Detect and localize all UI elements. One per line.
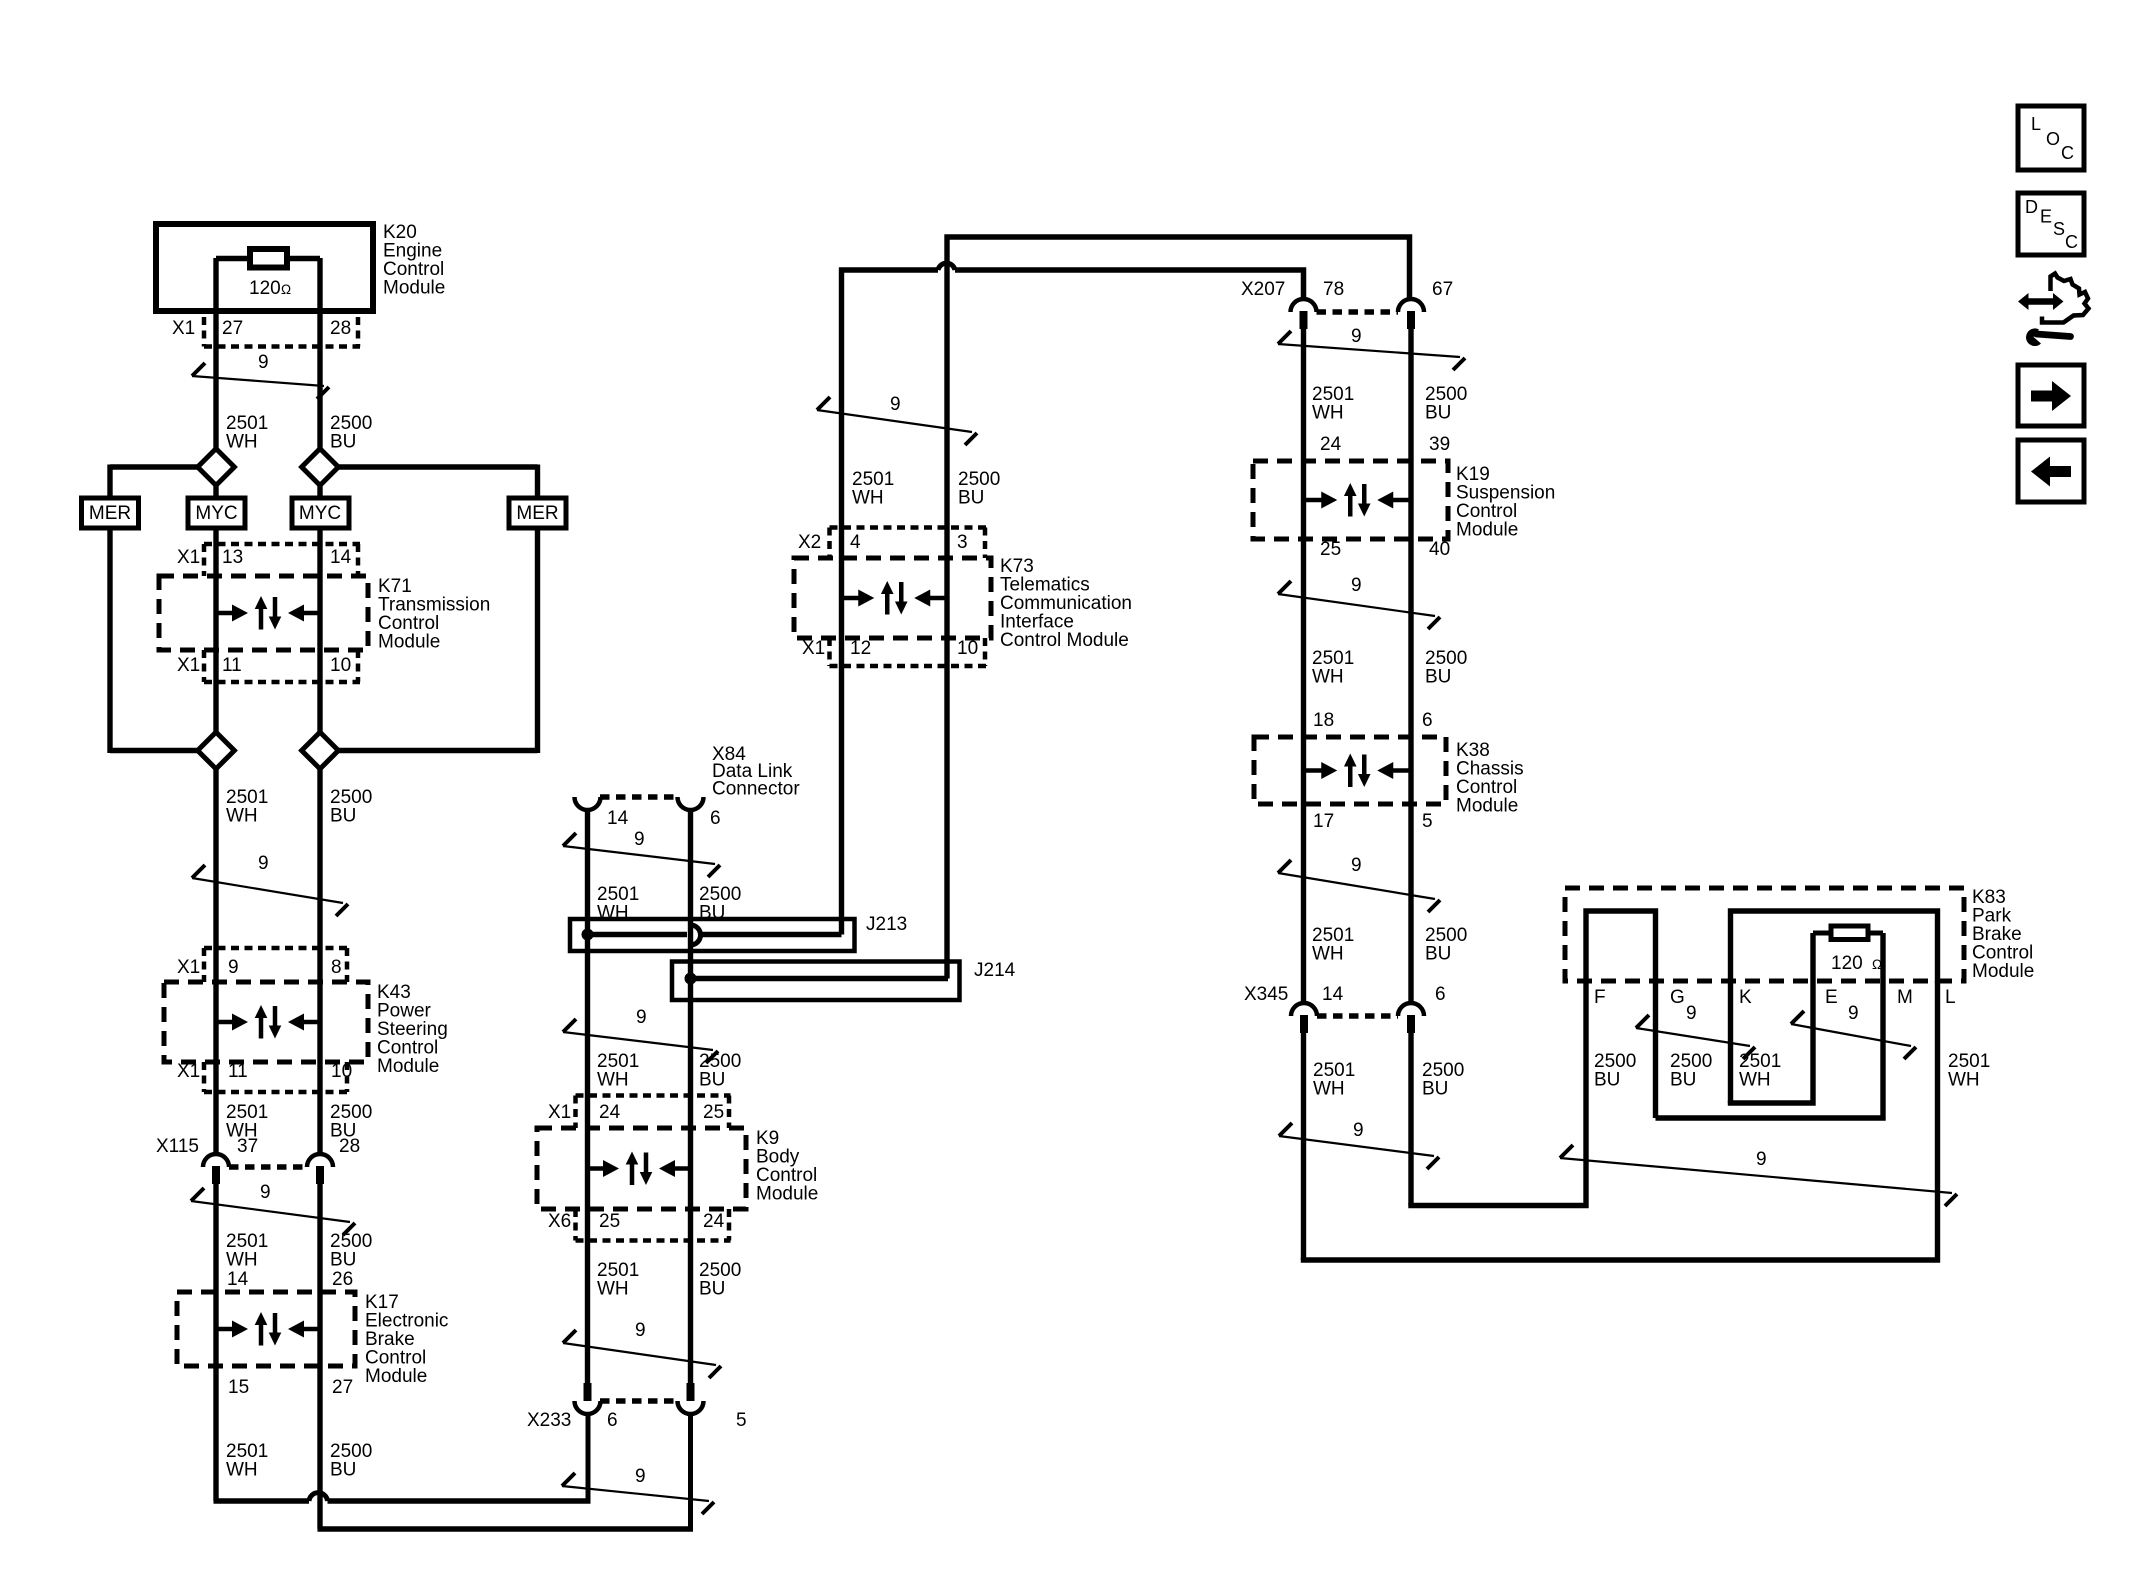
connector X1 of K20 - pins 27 28 — [172, 317, 360, 347]
svg-text:Control Module: Control Module — [1000, 630, 1129, 651]
svg-text:9: 9 — [634, 829, 645, 850]
svg-text:9: 9 — [1353, 1120, 1364, 1141]
wire - twisted pair mark 9 — [563, 1320, 721, 1378]
connector X1 top of K9 - pins 24 25 — [548, 1096, 731, 1129]
svg-text:Module: Module — [365, 1366, 427, 1387]
svg-text:MER: MER — [89, 503, 131, 524]
pin labels 15 27 below K17 — [228, 1377, 353, 1398]
svg-text:9: 9 — [1756, 1149, 1767, 1170]
module K83 Park Brake Control Module box — [1565, 888, 1964, 981]
pin labels 18 6 above K38 — [1313, 710, 1433, 731]
svg-text:9: 9 — [635, 1466, 646, 1487]
svg-text:BU: BU — [1594, 1069, 1620, 1090]
svg-text:WH: WH — [226, 1459, 258, 1480]
svg-text:9: 9 — [1686, 1003, 1697, 1024]
wire - twisted pair mark 9 — [1560, 1145, 1957, 1206]
svg-text:120: 120 — [1831, 953, 1863, 974]
terminal MYC right — [292, 498, 349, 528]
wire - twisted pair mark 9 — [1278, 326, 1465, 370]
svg-text:WH: WH — [1739, 1069, 1771, 1090]
svg-text:K: K — [1739, 987, 1752, 1008]
svg-text:X1: X1 — [177, 655, 200, 676]
svg-text:10: 10 — [331, 1061, 352, 1082]
svg-text:37: 37 — [237, 1136, 258, 1157]
svg-text:14: 14 — [330, 547, 352, 568]
wire - twisted pair mark 9 — [192, 853, 348, 916]
svg-text:12: 12 — [850, 638, 871, 659]
svg-text:MYC: MYC — [299, 503, 341, 524]
svg-text:8: 8 — [331, 957, 342, 978]
icon arrow left box — [2018, 440, 2084, 502]
svg-text:WH: WH — [226, 431, 258, 452]
connector X1 bottom of K43 - pins 11 10 — [177, 1061, 352, 1092]
svg-text:C: C — [2065, 232, 2078, 252]
wire - bottom 2501 WH run to X233 with hop over 2500 BU — [214, 1414, 591, 1504]
svg-text:9: 9 — [228, 957, 239, 978]
svg-text:BU: BU — [330, 431, 356, 452]
svg-text:24: 24 — [703, 1211, 725, 1232]
svg-text:9: 9 — [258, 352, 269, 373]
svg-text:WH: WH — [1313, 1078, 1345, 1099]
svg-text:Module: Module — [1456, 795, 1518, 816]
svg-text:Module: Module — [377, 1056, 439, 1077]
wire - K83 internal F to G bridge — [1586, 911, 1656, 1118]
svg-text:X1: X1 — [802, 638, 825, 659]
svg-text:X1: X1 — [172, 318, 195, 339]
svg-text:BU: BU — [699, 1278, 725, 1299]
svg-text:Module: Module — [378, 631, 440, 652]
resistor 120 ohm inside K20 — [216, 249, 320, 299]
wire - 2501 WH U-run from X345 to K83 pin L — [1304, 981, 1938, 1260]
wire - 2501 WH K73 vertical to J213 — [839, 268, 844, 935]
resistor 120 ohm inside K83 — [1813, 926, 1883, 974]
svg-text:BU: BU — [699, 1069, 725, 1090]
svg-text:X1: X1 — [177, 1061, 200, 1082]
svg-text:Ω: Ω — [281, 282, 291, 297]
svg-text:WH: WH — [852, 487, 884, 508]
svg-text:27: 27 — [332, 1377, 353, 1398]
svg-text:X2: X2 — [798, 532, 821, 553]
svg-text:26: 26 — [332, 1269, 353, 1290]
node splice diamond on 2500 BU lower — [302, 732, 339, 769]
module K43 Power Steering Control Module box — [164, 982, 368, 1062]
pin labels 24 39 above K19 — [1320, 434, 1450, 455]
svg-text:14: 14 — [607, 808, 629, 829]
wire - top 2500 BU horizontal run — [945, 237, 1410, 299]
svg-text:M: M — [1897, 987, 1913, 1008]
svg-text:11: 11 — [228, 1061, 248, 1082]
svg-text:MYC: MYC — [195, 503, 237, 524]
svg-text:6: 6 — [1435, 984, 1446, 1005]
svg-text:9: 9 — [1351, 855, 1362, 876]
svg-text:X207: X207 — [1241, 279, 1285, 300]
comm arrows inside K17 — [216, 1312, 320, 1346]
wire - top 2501 WH horizontal run with hop — [839, 263, 1304, 299]
svg-text:9: 9 — [636, 1007, 647, 1028]
wire - 2501 WH right column vertical — [1301, 312, 1306, 1260]
terminal MER left — [82, 498, 139, 528]
connector X207 in-line - pins 78 67 — [1241, 279, 1453, 329]
node splice diamond on 2501 WH lower — [198, 732, 235, 769]
svg-text:24: 24 — [599, 1102, 621, 1123]
svg-text:17: 17 — [1313, 811, 1334, 832]
svg-text:5: 5 — [1422, 811, 1433, 832]
svg-text:WH: WH — [1312, 402, 1344, 423]
svg-text:28: 28 — [339, 1136, 360, 1157]
pin labels 17 5 below K38 — [1313, 811, 1433, 832]
svg-text:WH: WH — [1948, 1069, 1980, 1090]
wire - 2500 BU left column vertical — [317, 258, 322, 1529]
svg-text:9: 9 — [635, 1320, 646, 1341]
wire - twisted pair mark 9 — [563, 829, 720, 877]
node splice diamond on 2500 BU upper — [302, 449, 339, 486]
comm arrows inside K19 — [1304, 483, 1412, 517]
wire - 2500 BU middle column vertical — [688, 797, 693, 1401]
svg-text:WH: WH — [597, 1069, 629, 1090]
terminal MYC left — [188, 498, 245, 528]
svg-text:BU: BU — [330, 805, 356, 826]
connector X84 Data Link Connector - pins 14 6 — [575, 797, 721, 829]
svg-text:40: 40 — [1429, 539, 1450, 560]
svg-text:25: 25 — [703, 1102, 724, 1123]
svg-text:X1: X1 — [177, 547, 200, 568]
wire - twisted pair mark 9 — [562, 1466, 714, 1514]
module K38 Chassis Control Module box — [1254, 737, 1446, 804]
svg-text:18: 18 — [1313, 710, 1334, 731]
comm arrows inside K73 — [842, 581, 948, 615]
svg-text:BU: BU — [330, 1459, 356, 1480]
svg-text:BU: BU — [1670, 1069, 1696, 1090]
svg-text:X115: X115 — [156, 1136, 199, 1157]
wire - twisted pair mark 9 — [817, 394, 977, 445]
wire - K83 internal K to E link — [1731, 933, 1814, 1103]
svg-text:24: 24 — [1320, 434, 1342, 455]
wire - twisted pair mark 9 — [1279, 1120, 1439, 1169]
svg-text:WH: WH — [597, 1278, 629, 1299]
connector X345 in-line - pins 14 6 — [1244, 984, 1446, 1033]
icon LOC box — [2018, 106, 2084, 170]
svg-text:78: 78 — [1323, 279, 1344, 300]
wire - twisted pair mark 9 — [192, 352, 329, 399]
svg-text:L: L — [1945, 987, 1956, 1008]
wire - twisted pair mark 9 — [1791, 1003, 1916, 1059]
svg-text:120: 120 — [249, 278, 281, 299]
svg-text:4: 4 — [850, 532, 861, 553]
svg-text:13: 13 — [222, 547, 243, 568]
connector X1 bottom of K71 - pins 11 10 — [177, 650, 360, 682]
svg-text:Module: Module — [1972, 961, 2034, 982]
comm arrows inside K9 — [588, 1152, 691, 1186]
svg-text:9: 9 — [1848, 1003, 1859, 1024]
svg-text:6: 6 — [607, 1410, 618, 1431]
wire - twisted pair mark 9 — [1278, 575, 1440, 629]
svg-text:25: 25 — [599, 1211, 620, 1232]
node splice diamond on 2501 WH upper — [198, 449, 235, 486]
svg-text:BU: BU — [1425, 666, 1451, 687]
connector X1 top of K43 - pins 9 8 — [177, 948, 349, 982]
svg-text:X1: X1 — [177, 957, 200, 978]
wire - K83 internal M to G link — [1656, 933, 1884, 1118]
connector X115 in-line — [203, 1154, 333, 1184]
module K73 Telematics Communication Interface Control Module box — [794, 558, 991, 638]
module K17 Electronic Brake Control Module box — [177, 1292, 355, 1366]
svg-text:Ω: Ω — [1872, 957, 1882, 972]
module K9 Body Control Module box — [537, 1128, 746, 1209]
svg-text:Connector: Connector — [712, 778, 800, 799]
connector X1 bottom of K73 - pins 12 10 — [802, 638, 987, 666]
wire - twisted pair mark 9 — [563, 1007, 718, 1063]
svg-text:10: 10 — [957, 638, 978, 659]
svg-text:WH: WH — [226, 805, 258, 826]
svg-text:Module: Module — [383, 277, 445, 298]
wire - 2500 BU K73 vertical to J214 — [944, 235, 949, 979]
comm arrows inside K71 — [216, 596, 320, 630]
svg-text:5: 5 — [736, 1410, 747, 1431]
pin labels 25 40 below K19 — [1320, 539, 1450, 560]
junction J214 bus — [672, 962, 960, 1001]
wire - 2500 BU U-run from X345 to K83 pin F — [1411, 981, 1586, 1206]
svg-text:25: 25 — [1320, 539, 1341, 560]
svg-text:X6: X6 — [548, 1211, 571, 1232]
svg-text:14: 14 — [227, 1269, 249, 1290]
svg-text:C: C — [2061, 143, 2074, 163]
svg-text:E: E — [1825, 987, 1838, 1008]
svg-text:15: 15 — [228, 1377, 249, 1398]
svg-text:F: F — [1594, 987, 1606, 1008]
svg-text:WH: WH — [1312, 666, 1344, 687]
svg-text:6: 6 — [710, 808, 721, 829]
svg-text:MER: MER — [516, 503, 558, 524]
svg-text:BU: BU — [1422, 1078, 1448, 1099]
label wire 2501 WH 14 / 2500 BU 26 above K17 — [226, 1231, 372, 1290]
svg-text:X233: X233 — [527, 1410, 571, 1431]
svg-text:BU: BU — [958, 487, 984, 508]
connector X233 in-line - pins 6 5 — [527, 1383, 747, 1431]
svg-text:9: 9 — [1351, 326, 1362, 347]
module K20 Engine Control Module box — [156, 224, 373, 311]
wire - twisted pair mark 9 — [1278, 855, 1440, 912]
svg-text:L: L — [2031, 114, 2041, 134]
icon harness routing wrench — [2018, 274, 2089, 347]
svg-text:6: 6 — [1422, 710, 1433, 731]
svg-text:3: 3 — [957, 532, 968, 553]
label wires 2500 BU 2500 BU 2501 WH 2501 WH under K83 — [1594, 1051, 1990, 1091]
svg-text:D: D — [2025, 197, 2038, 217]
pin labels F G K E M L of K83 — [1594, 987, 1956, 1008]
svg-text:9: 9 — [260, 1182, 271, 1203]
svg-text:9: 9 — [1351, 575, 1362, 596]
svg-text:9: 9 — [890, 394, 901, 415]
svg-text:Module: Module — [756, 1183, 818, 1204]
terminal MER right — [509, 498, 566, 528]
svg-text:BU: BU — [1425, 402, 1451, 423]
junction J213 bus — [570, 919, 855, 951]
svg-text:28: 28 — [330, 318, 351, 339]
wire - K83 internal K to L bridge — [1731, 911, 1938, 1103]
icon arrow right box — [2018, 365, 2084, 426]
connector X1 top of K71 - pins 13 14 — [177, 544, 360, 576]
wire - twisted pair mark 9 — [191, 1182, 355, 1235]
svg-text:J214: J214 — [974, 960, 1016, 981]
comm arrows inside K43 — [216, 1005, 320, 1039]
svg-text:E: E — [2040, 207, 2052, 227]
svg-text:9: 9 — [258, 853, 269, 874]
svg-text:WH: WH — [226, 1249, 258, 1270]
icon DESC box — [2018, 193, 2084, 255]
wire - twisted pair mark 9 — [1636, 1003, 1755, 1059]
svg-text:WH: WH — [1312, 943, 1344, 964]
svg-text:S: S — [2053, 219, 2065, 239]
svg-text:11: 11 — [222, 655, 242, 676]
wire - left branch loop to MER terminals — [110, 465, 538, 754]
svg-text:O: O — [2046, 129, 2060, 149]
wire - 2500 BU right column vertical — [1408, 312, 1413, 1206]
svg-text:G: G — [1670, 987, 1685, 1008]
svg-text:27: 27 — [222, 318, 243, 339]
wire - 2501 WH middle column vertical — [585, 797, 590, 1401]
svg-text:Module: Module — [1456, 519, 1518, 540]
label wire 2501 WH 37 / 2500 BU 28 above X115 — [156, 1102, 372, 1157]
svg-text:BU: BU — [1425, 943, 1451, 964]
wire - bottom 2500 BU run to X233 — [318, 1414, 694, 1532]
svg-text:10: 10 — [330, 655, 351, 676]
svg-text:X345: X345 — [1244, 984, 1288, 1005]
wire - 2501 WH left column vertical — [213, 258, 218, 1501]
comm arrows inside K38 — [1304, 754, 1412, 788]
svg-text:39: 39 — [1429, 434, 1450, 455]
svg-text:X1: X1 — [548, 1102, 571, 1123]
connector X6 bottom of K9 - pins 25 24 — [548, 1209, 731, 1241]
module K19 Suspension Control Module box — [1253, 461, 1448, 539]
connector X2 top of K73 - pins 4 3 — [798, 528, 987, 559]
svg-text:J213: J213 — [866, 914, 907, 935]
svg-text:BU: BU — [330, 1249, 356, 1270]
module K71 Transmission Control Module box — [159, 576, 368, 650]
svg-text:14: 14 — [1322, 984, 1344, 1005]
svg-text:67: 67 — [1432, 279, 1453, 300]
